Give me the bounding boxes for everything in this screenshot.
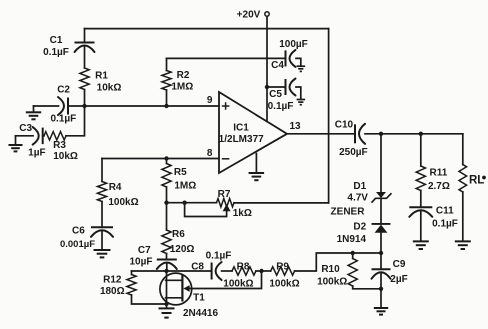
node D junction (R5 top) [164,156,168,160]
capacitor C1 [43,29,94,58]
wire feedback top rail [85,28,329,30]
capacitor C6 [60,226,113,251]
svg-text:100µF: 100µF [279,39,308,50]
node E junction [164,201,168,205]
capacitor C4 [271,39,308,71]
svg-text:2.7Ω: 2.7Ω [428,181,450,192]
node H junction (R8/R9/gate) [259,269,263,273]
svg-text:8: 8 [207,148,213,159]
op-amp U1 IC1 1/2LM377 [219,92,287,173]
wire R5 to node E [166,187,168,203]
svg-text:0.1µF: 0.1µF [432,219,458,230]
ground C5 [296,87,305,105]
svg-text:10kΩ: 10kΩ [53,151,78,162]
svg-text:C10: C10 [335,120,354,131]
capacitor C10 [335,120,368,158]
ground C4 [296,58,305,71]
svg-text:ZENER: ZENER [331,207,366,218]
resistor R11 [416,166,450,192]
wire output to RL [462,134,464,165]
svg-text:1µF: 1µF [28,148,45,159]
svg-text:C11: C11 [436,206,454,217]
wire RL to ground [462,192,464,241]
wire D2 to node J [380,233,382,253]
capacitor C9 [372,253,408,285]
capacitor C11 [409,206,458,230]
wire node G to C8 [167,270,212,272]
svg-text:100kΩ: 100kΩ [108,197,138,208]
capacitor C8 [191,251,231,280]
capacitor C7 [130,245,177,269]
ground C6 [94,250,111,257]
wire R1 to node A [84,90,86,107]
resistor RL load [459,165,486,193]
svg-text:100kΩ: 100kΩ [317,276,347,287]
pin 8 label [207,148,213,159]
svg-text:R6: R6 [172,229,185,240]
svg-text:R5: R5 [174,167,187,178]
svg-text:1kΩ: 1kΩ [233,208,252,219]
svg-text:10µF: 10µF [130,257,153,268]
node J junction (C9 top) [379,251,383,255]
svg-text:0.1µF: 0.1µF [43,47,69,58]
wire ground to C2 [34,105,59,107]
svg-text:R4: R4 [109,182,122,193]
wire R12 top [132,270,167,272]
ground C2 [26,106,41,119]
svg-text:RL: RL [469,175,484,187]
wire C6 to ground [101,231,103,249]
svg-text:2µF: 2µF [390,274,407,285]
wire ground to C3 [16,135,34,137]
svg-text:C2: C2 [57,85,70,96]
wire R2 to node B [166,90,168,106]
wire node C to C5 [267,86,286,88]
svg-text:+20V: +20V [237,9,261,20]
wire R4 to C6 [101,202,103,228]
resistor R10 [317,253,357,287]
wire R6 to C7 [166,254,168,260]
node M junction (D1 top) [379,132,383,136]
svg-text:1N914: 1N914 [337,234,367,245]
capacitor C5 [268,79,296,113]
node F junction (wiper tie) [182,201,186,205]
wire R11 to C11 [420,191,422,208]
node K junction [379,287,383,291]
wire +20V down to op-amp [266,17,268,122]
ground C11 [413,241,429,249]
wire R2 top to C4 [167,57,286,59]
svg-text:250µF: 250µF [339,147,368,158]
svg-text:C4: C4 [271,60,284,71]
svg-text:1MΩ: 1MΩ [174,181,196,192]
wire op-amp output [287,133,355,135]
capacitor C2 [51,85,77,125]
wire R4 stem [101,159,103,182]
svg-text:13: 13 [289,121,301,132]
wire node E to R6 [166,203,168,230]
wire C3 to R3 [43,135,44,137]
transistor T1 2N4416 [160,271,219,319]
svg-text:1MΩ: 1MΩ [171,81,193,92]
resistor R5 [162,164,196,192]
ground op-amp [249,154,265,181]
svg-text:C9: C9 [393,259,406,270]
svg-text:R8: R8 [237,262,250,273]
svg-text:100kΩ: 100kΩ [269,278,299,289]
svg-text:R3: R3 [53,140,66,151]
resistor R6 [162,229,195,255]
ground C3 [9,136,23,152]
wire node M to D1 [380,134,382,192]
node G junction (drain node) [164,269,168,273]
svg-text:0.1µF: 0.1µF [268,101,294,112]
svg-text:T1: T1 [193,292,205,303]
svg-text:2N4416: 2N4416 [183,308,218,319]
diode D1 4.7V zener [331,181,392,218]
svg-text:120Ω: 120Ω [170,244,195,255]
wire R12 bottom [132,295,167,304]
svg-text:C5: C5 [269,89,282,100]
svg-text:R9: R9 [276,262,289,273]
wire R3 to node A [66,106,85,136]
svg-text:R1: R1 [95,71,108,82]
resistor R4 [97,182,138,209]
label R8 [223,262,253,290]
svg-text:C7: C7 [138,245,151,256]
svg-text:10kΩ: 10kΩ [97,83,122,94]
ground C9 [374,308,388,315]
pin 9 label [207,95,213,106]
wire C1 to R1 [84,46,86,68]
node A junction [82,104,86,108]
svg-text:0.1µF: 0.1µF [51,114,77,125]
svg-text:C6: C6 [72,226,85,237]
wire feedback right vertical [328,29,330,203]
resistor R8 [232,267,256,275]
svg-text:R7: R7 [218,189,231,200]
node B junction (R2 bottom) [164,104,168,108]
wire C9 to node K [380,273,382,289]
svg-text:R12: R12 [103,275,122,286]
svg-text:180Ω: 180Ω [100,286,125,297]
svg-text:C1: C1 [50,35,63,46]
svg-text:R11: R11 [430,168,448,179]
wire C8 to R8 [222,270,232,272]
resistor R12 [100,271,136,297]
resistor R9 [269,262,299,290]
svg-text:R2: R2 [177,70,190,81]
ground T1 [159,304,175,318]
ground RL [455,241,471,249]
wire R7 to feedback corner [234,202,329,204]
capacitor C3 [19,123,45,158]
terminal +20V [237,9,270,20]
svg-text:C8: C8 [191,261,204,272]
wire R8 to node H [256,270,262,272]
wire C10 to load [365,133,463,135]
svg-text:9: 9 [207,95,213,106]
wire D1 to D2 [380,198,382,224]
wire node K to ground [380,289,382,308]
potentiometer R7 [185,189,252,219]
wire node E to R7 [167,202,217,204]
node C junction (C5 tap) [265,85,269,89]
wire gate to node H [190,271,262,289]
resistor R2 [162,70,193,92]
pin 13 label [289,121,301,132]
svg-text:4.7V: 4.7V [347,193,368,204]
wire R5 stem [166,159,168,164]
wire C11 to ground [420,211,422,241]
wire node H to R9 [262,270,271,272]
wire C7 to node G [166,263,168,271]
svg-text:0.001µF: 0.001µF [60,239,95,250]
wire C2 to node A [68,105,85,107]
svg-text:IC1: IC1 [233,122,249,133]
svg-text:D1: D1 [353,181,366,192]
wire R10 bottom [353,286,381,289]
node N junction (R11 top) [419,132,423,136]
svg-text:0.1µF: 0.1µF [206,251,232,262]
resistor R3 [44,132,78,163]
svg-text:D2: D2 [353,221,366,232]
resistor R1 [80,68,121,94]
svg-text:R10: R10 [321,264,340,275]
node L junction (source) [164,302,168,306]
wire R9 to node I [295,253,381,271]
wire inverting input [102,158,219,160]
node I junction (R10 top) [351,251,355,255]
diode D2 1N914 [337,221,390,245]
wire non-inverting input [85,105,220,107]
svg-text:1/2LM377: 1/2LM377 [219,134,264,145]
wire R11 stem [420,134,422,166]
svg-text:C3: C3 [19,123,32,134]
wire R2 stem [166,58,168,70]
